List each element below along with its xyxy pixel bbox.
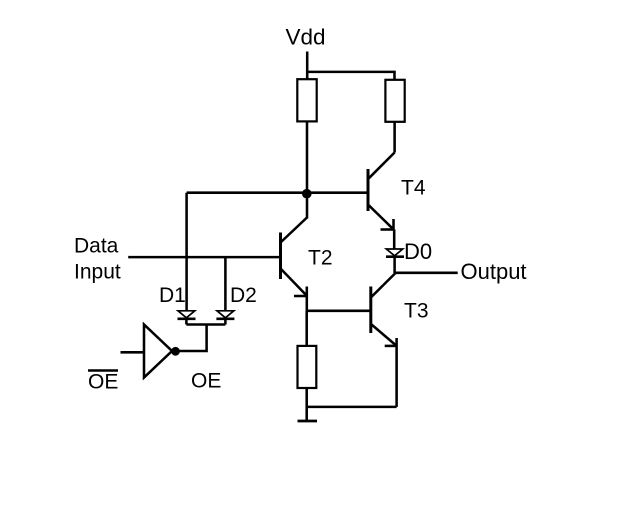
wire resistor to ground — [305, 388, 308, 421]
wire T2 emitter to T3 base — [307, 310, 371, 313]
svg-text:Output: Output — [461, 259, 527, 284]
wire top horizontal — [306, 72, 394, 80]
svg-text:T4: T4 — [401, 177, 426, 200]
node base bus junction dot — [302, 189, 312, 199]
resistor R-left-top — [297, 79, 316, 121]
transistor T3 — [371, 273, 397, 407]
wire Output line — [395, 272, 458, 275]
wire base bus T2/T4 — [187, 191, 369, 194]
svg-text:D1: D1 — [159, 284, 186, 307]
svg-text:D2: D2 — [230, 284, 257, 307]
label OE-bar overline — [88, 369, 118, 371]
node inverter output dot — [171, 347, 180, 356]
diode D2 — [216, 311, 234, 325]
diode D0 — [386, 249, 404, 273]
inverter U1 — [121, 325, 173, 378]
diode D1 — [178, 311, 196, 325]
wire vertical to D1 — [185, 193, 188, 311]
transistor T2 — [281, 194, 308, 312]
resistor R-right-top — [385, 80, 404, 122]
transistor T4 — [368, 122, 395, 250]
wire Vdd lead — [306, 52, 309, 80]
wire vertical to D2 — [224, 257, 227, 311]
svg-text:Data: Data — [74, 235, 119, 258]
wire connector to inverter output — [177, 325, 207, 352]
wire Data input line — [128, 256, 280, 259]
svg-text:OE: OE — [191, 370, 221, 393]
wire D1-D2 connector — [186, 323, 225, 326]
ground — [298, 420, 318, 423]
svg-text:Input: Input — [74, 261, 121, 284]
svg-text:D0: D0 — [404, 239, 432, 264]
svg-text:OE: OE — [88, 371, 118, 394]
svg-text:Vdd: Vdd — [286, 25, 326, 50]
wire left resistor to node — [306, 121, 309, 193]
wire down to bottom resistor — [305, 311, 308, 346]
svg-text:T3: T3 — [404, 300, 429, 323]
svg-text:T2: T2 — [308, 247, 333, 270]
wire bottom horizontal — [307, 406, 397, 409]
resistor R-bottom — [298, 346, 317, 388]
